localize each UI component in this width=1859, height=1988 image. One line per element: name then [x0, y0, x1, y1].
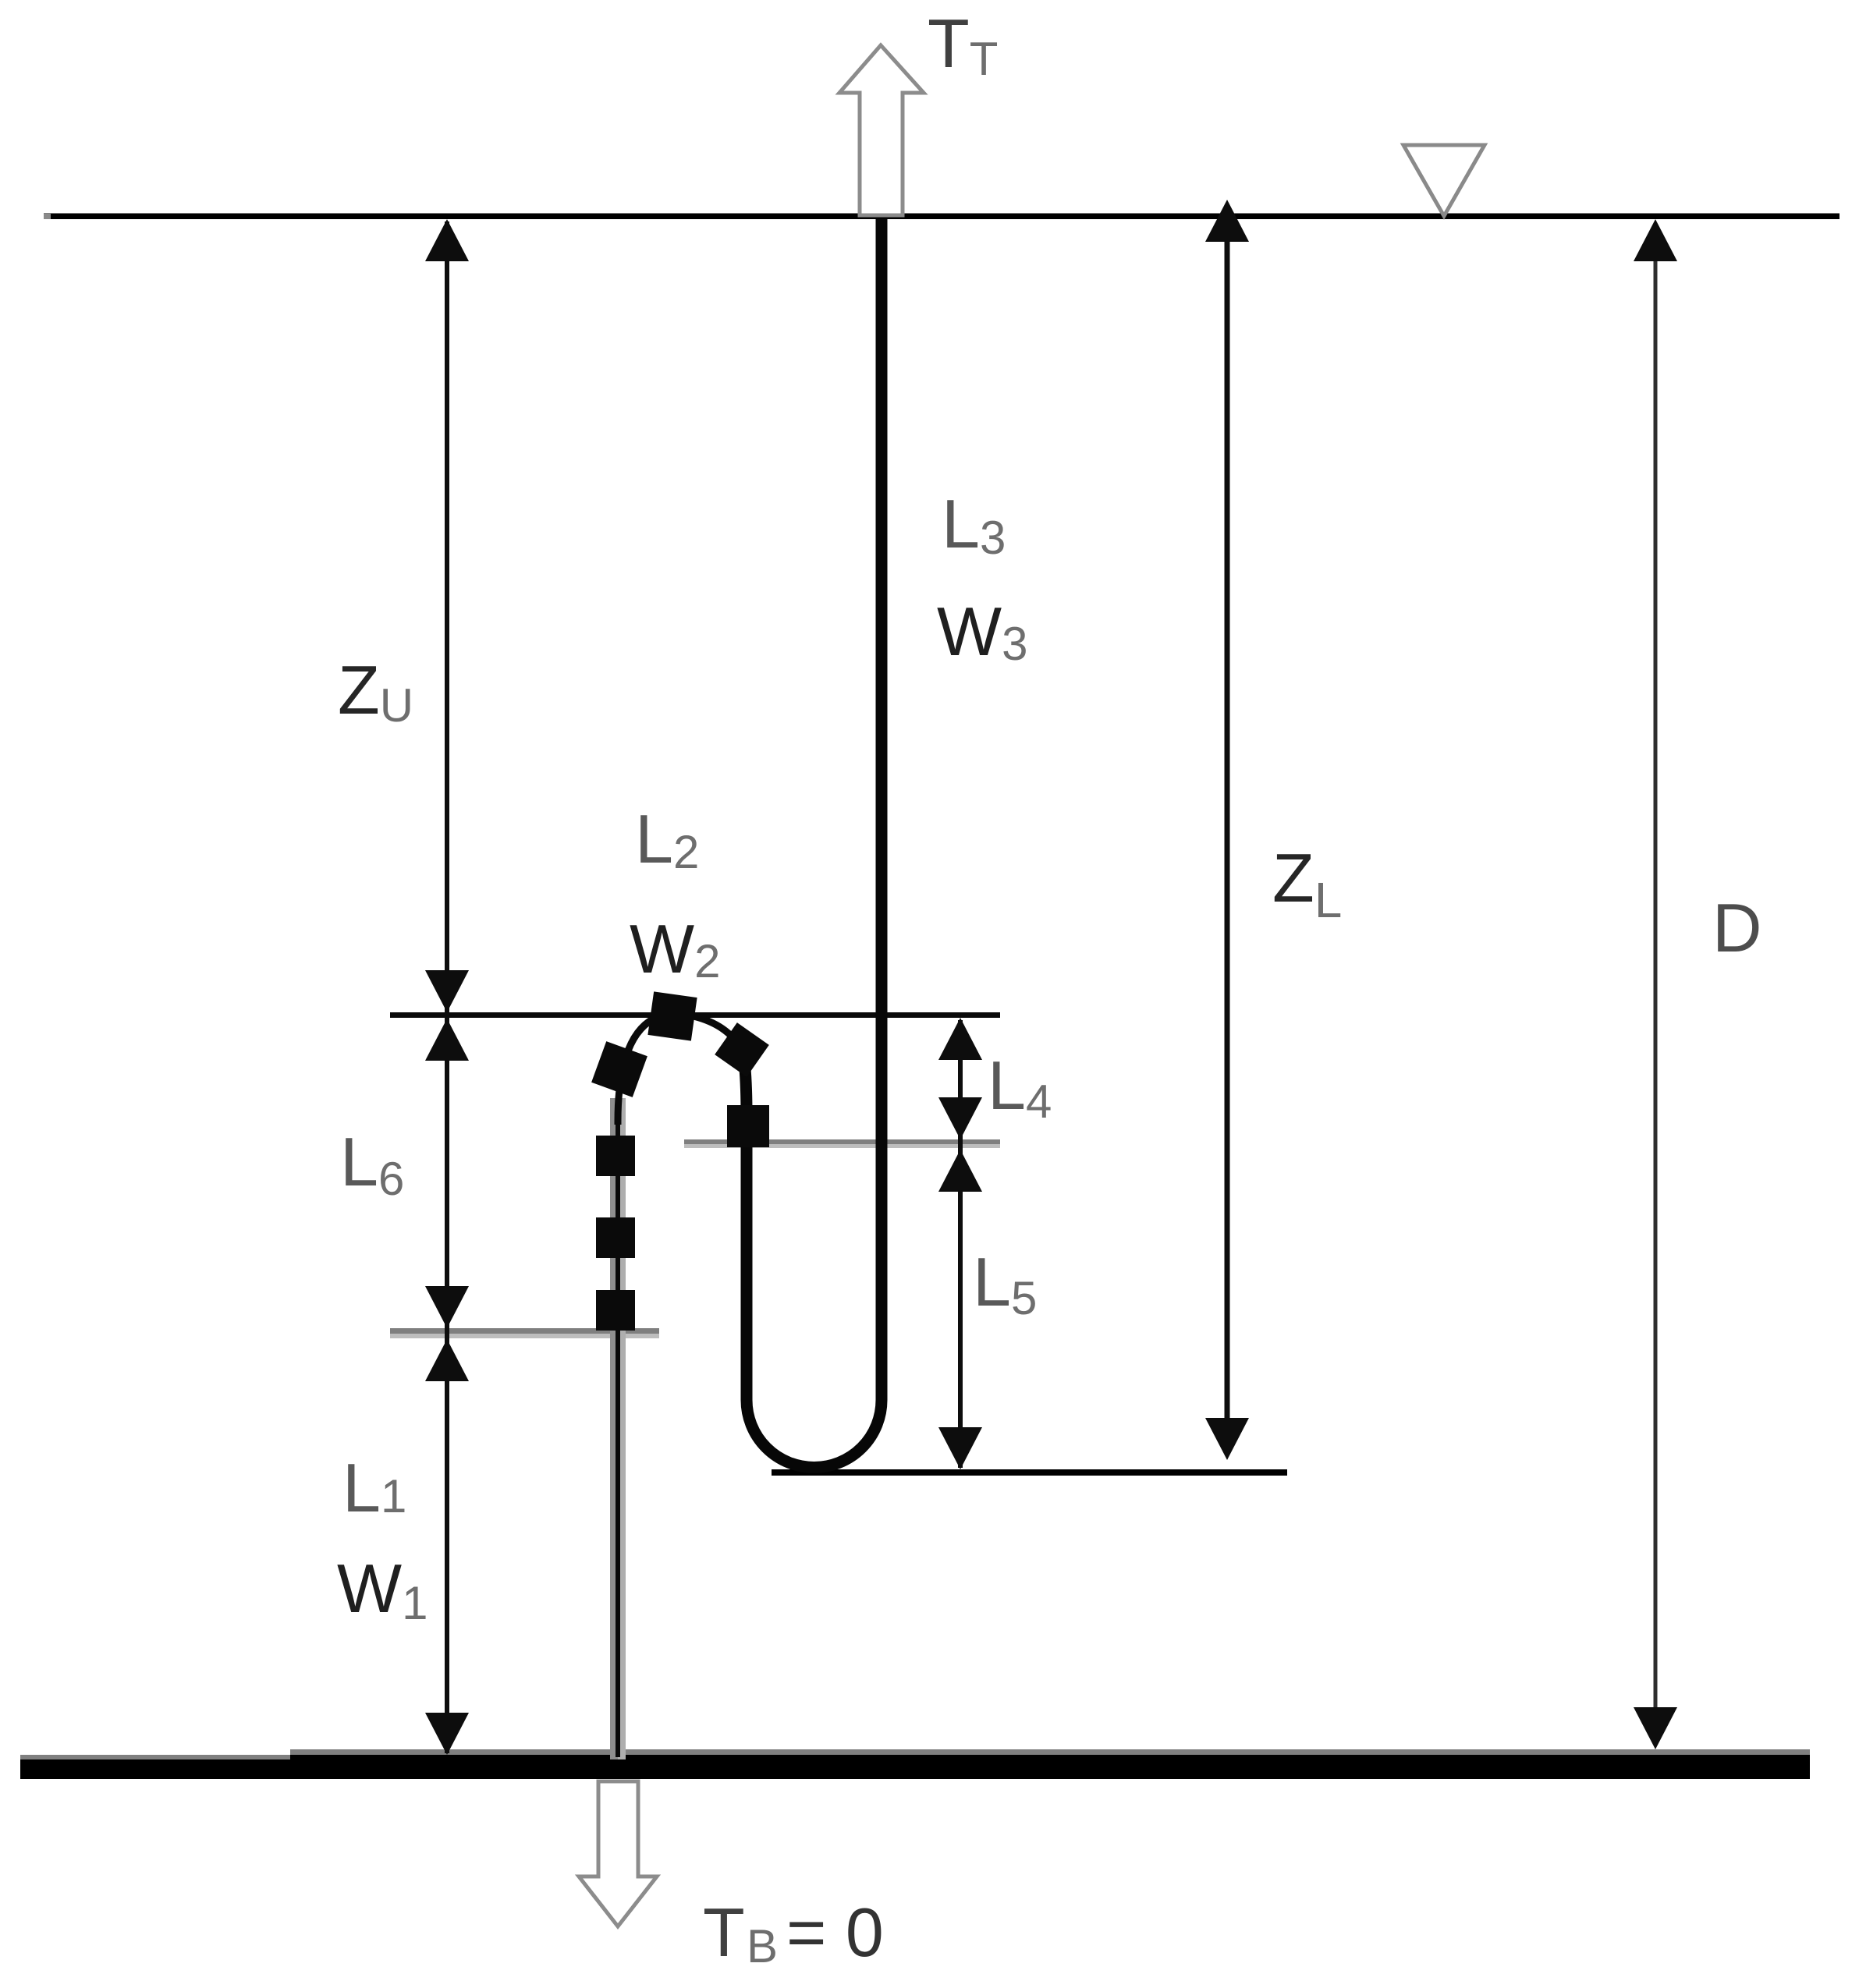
svg-text:= 0: = 0: [786, 1894, 884, 1971]
svg-text:B: B: [747, 1920, 778, 1972]
svg-text:D: D: [1712, 889, 1762, 966]
svg-text:T: T: [703, 1894, 745, 1971]
